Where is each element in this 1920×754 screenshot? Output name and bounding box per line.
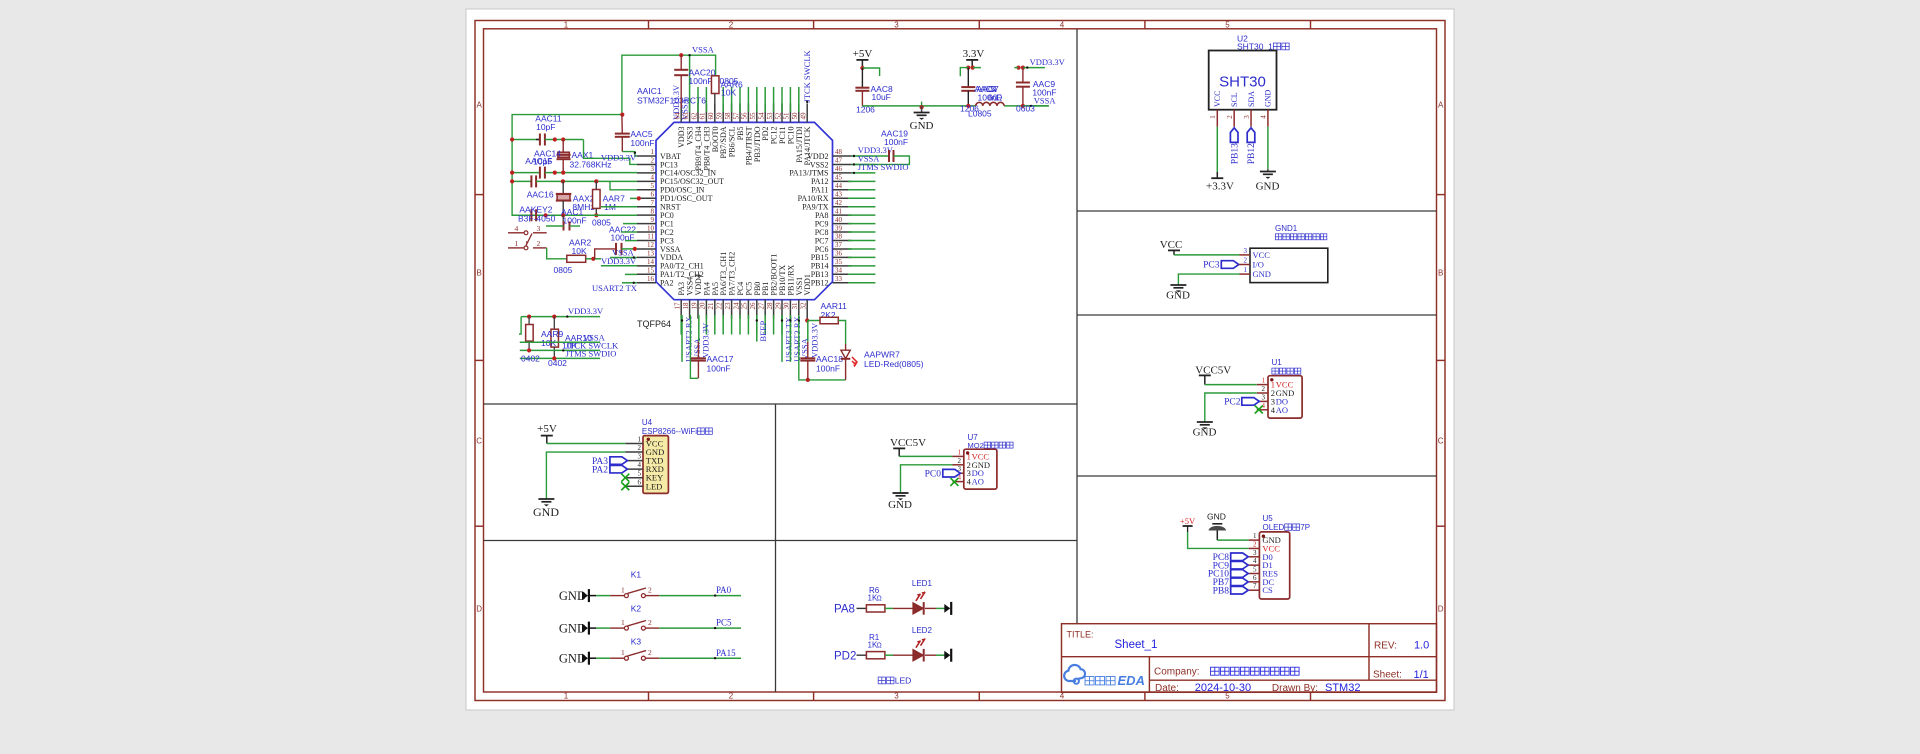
svg-text:7: 7 [651, 199, 655, 207]
svg-text:GND: GND [559, 621, 586, 635]
svg-text:36: 36 [835, 250, 843, 258]
svg-text:100nF: 100nF [630, 138, 654, 148]
svg-text:1: 1 [1253, 532, 1257, 540]
power +5V flag (U4) [537, 423, 625, 444]
svg-text:U4: U4 [642, 418, 653, 427]
wire pin48 VDD3.3V with capacitor AAC19 [852, 129, 910, 165]
svg-text:100nF: 100nF [884, 137, 908, 147]
wire SHT30 pin1 to +3.3V [1206, 127, 1234, 193]
svg-text:11: 11 [647, 233, 654, 241]
svg-text:8: 8 [651, 207, 655, 215]
svg-text:1: 1 [621, 618, 625, 627]
svg-text:Date:: Date: [1155, 683, 1179, 694]
svg-text:4: 4 [1260, 115, 1268, 119]
svg-text:15: 15 [647, 267, 655, 275]
ground GND (bus) [910, 102, 934, 132]
svg-text:VSSA: VSSA [692, 45, 715, 55]
svg-text:PA2: PA2 [660, 279, 674, 288]
svg-text:3: 3 [651, 165, 655, 173]
svg-text:2: 2 [1244, 257, 1248, 265]
svg-text:K2: K2 [631, 604, 642, 614]
svg-text:100nF: 100nF [563, 216, 587, 226]
crystal AAX2 8MHz [556, 181, 595, 215]
wire GND bus [862, 105, 1048, 107]
svg-text:GND: GND [1264, 89, 1273, 107]
svg-text:1: 1 [564, 692, 569, 701]
svg-text:48: 48 [835, 148, 843, 156]
svg-text:VDD3.3V: VDD3.3V [810, 322, 820, 358]
MCU pins left 1-16 [637, 148, 724, 287]
net label USART3 RX pin30 [789, 315, 802, 362]
net flag PB13 (SCL) [1230, 128, 1240, 165]
svg-text:PB12: PB12 [811, 279, 829, 288]
svg-text:LED: LED [646, 481, 663, 491]
wire pin46 JTMS SWDIO [852, 162, 909, 174]
svg-text:REV:: REV: [1374, 641, 1397, 652]
svg-text:GND1: GND1 [1275, 224, 1298, 233]
svg-text:40: 40 [835, 216, 843, 224]
wire VSSA row to pin8 [512, 213, 637, 217]
svg-text:0402: 0402 [548, 358, 567, 368]
resistor R1 1K [857, 633, 913, 659]
svg-text:3: 3 [537, 224, 541, 233]
svg-text:+5V: +5V [853, 48, 873, 60]
svg-text:45: 45 [835, 174, 843, 182]
svg-text:PA8: PA8 [834, 604, 855, 616]
svg-text:2: 2 [648, 586, 652, 595]
net label USART2 TX pin16 [592, 282, 637, 293]
key K3 [559, 637, 741, 666]
svg-text:PA0: PA0 [716, 585, 732, 595]
svg-text:12: 12 [647, 241, 655, 249]
MCU pins top 64-49 [674, 103, 813, 170]
svg-text:5: 5 [1253, 566, 1257, 574]
wire pin9-11 [621, 224, 637, 241]
svg-text:0805: 0805 [554, 265, 573, 275]
svg-text:1: 1 [564, 20, 569, 29]
svg-text:TQFP64: TQFP64 [637, 319, 671, 329]
svg-text:+3.3V: +3.3V [1206, 181, 1234, 193]
svg-text:GND: GND [910, 120, 934, 132]
svg-text:VSSA: VSSA [1034, 95, 1057, 105]
svg-text:1.0: 1.0 [1414, 640, 1429, 652]
svg-text:GND: GND [888, 499, 912, 511]
svg-text:38: 38 [835, 233, 843, 241]
svg-text:64: 64 [674, 112, 682, 120]
wire pin47 VSSA [852, 154, 881, 166]
power VCC5V flag (U7) [890, 437, 953, 456]
svg-text:LED2: LED2 [912, 626, 933, 635]
svg-text:B3F-4050: B3F-4050 [518, 214, 556, 224]
power +5V flag (U5 VCC) [1180, 516, 1249, 548]
key AAKEY2 B3F-4050 [508, 205, 556, 250]
svg-text:LED1: LED1 [912, 579, 933, 588]
svg-text:32: 32 [800, 302, 808, 310]
svg-text:3: 3 [894, 20, 899, 29]
resistor AAR10 10K [541, 317, 592, 359]
svg-text:13: 13 [647, 250, 655, 258]
svg-text:AAC16: AAC16 [527, 190, 554, 200]
net flag PC2 [1224, 398, 1259, 408]
svg-text:A: A [1438, 101, 1444, 110]
svg-text:AO: AO [1276, 405, 1288, 415]
net label BEEP pin26 [756, 315, 768, 342]
svg-text:56: 56 [741, 112, 749, 120]
net JTCK SWCLK row [520, 341, 619, 353]
svg-text:2: 2 [1262, 385, 1266, 393]
svg-text:55: 55 [749, 112, 757, 120]
svg-text:AAPWR7: AAPWR7 [864, 350, 900, 360]
net flag PC3 [1203, 261, 1239, 271]
svg-text:OLED: OLED [1263, 523, 1285, 532]
svg-text:100nF: 100nF [707, 364, 731, 374]
svg-text:5: 5 [1225, 20, 1230, 29]
capacitor AAC9 100nF [1014, 57, 1065, 114]
net VSSA row [520, 333, 606, 343]
frame border [475, 21, 1445, 701]
svg-text:27: 27 [758, 302, 766, 310]
svg-text:3: 3 [1262, 393, 1266, 401]
svg-text:52: 52 [774, 112, 782, 120]
wire pin15 [625, 273, 637, 275]
svg-text:6: 6 [638, 478, 642, 486]
svg-text:57: 57 [732, 112, 740, 120]
net JTMS SWDIO row [520, 349, 617, 368]
svg-text:1: 1 [638, 436, 642, 444]
svg-text:2: 2 [648, 648, 652, 657]
svg-text:L0805: L0805 [968, 109, 992, 119]
svg-text:10K: 10K [572, 246, 587, 256]
ground buzzer [1166, 274, 1239, 301]
svg-text:9: 9 [651, 216, 655, 224]
svg-text:2: 2 [1226, 115, 1234, 119]
net flag PA3 [592, 457, 627, 467]
svg-text:2: 2 [958, 457, 962, 465]
svg-text:7: 7 [1253, 582, 1257, 590]
svg-text:C: C [476, 437, 482, 446]
svg-text:20: 20 [699, 302, 707, 310]
svg-text:+5V: +5V [537, 423, 557, 435]
svg-text:GND: GND [559, 651, 586, 665]
U7 pins [953, 448, 991, 486]
title block texts [1067, 630, 1430, 695]
svg-text:CS: CS [1262, 585, 1273, 595]
svg-text:18: 18 [682, 302, 690, 310]
svg-text:ESP8266--WiFi: ESP8266--WiFi [642, 427, 697, 436]
net label USART3 TX pin29 [781, 315, 794, 362]
svg-text:1/1: 1/1 [1414, 669, 1429, 681]
wire pin6 [630, 196, 641, 200]
svg-text:AAIC1: AAIC1 [637, 86, 662, 96]
svg-text:0603: 0603 [1016, 104, 1035, 114]
svg-text:1: 1 [1244, 266, 1248, 274]
svg-text:61: 61 [699, 112, 707, 120]
svg-text:5: 5 [638, 470, 642, 478]
net port PD2 [834, 650, 856, 662]
svg-text:STM32: STM32 [1325, 682, 1360, 694]
svg-text:AAC18: AAC18 [816, 354, 843, 364]
net label JTCK SWCLK (pin49) [802, 49, 812, 103]
wire AAC5 to pin1 VDD3.3V [601, 115, 655, 163]
svg-text:4: 4 [1253, 557, 1257, 565]
net label VDD3.3V pin14 [601, 256, 637, 266]
svg-text:19: 19 [690, 302, 698, 310]
svg-text:3: 3 [1243, 115, 1251, 119]
svg-text:21: 21 [707, 302, 715, 310]
svg-text:VDD3.3V: VDD3.3V [1030, 57, 1066, 67]
svg-text:22: 22 [716, 302, 724, 310]
resistor AAR11 2K2 [808, 301, 847, 344]
svg-text:LED-Red(0805): LED-Red(0805) [864, 359, 924, 369]
net flag PA2 [592, 465, 627, 475]
svg-text:62: 62 [690, 112, 698, 120]
svg-text:BEEP: BEEP [758, 321, 768, 342]
wire pin5 [610, 181, 637, 189]
wire pin31 VSSA rail bottom [798, 315, 846, 382]
svg-text:51: 51 [783, 112, 791, 120]
svg-text:U1: U1 [1272, 358, 1283, 367]
U5 pins [1249, 532, 1281, 595]
svg-text:1: 1 [651, 148, 655, 156]
wire pin7 NRST [601, 206, 637, 208]
wire stubs bottom pins [681, 315, 790, 335]
svg-text:VDD3.3V: VDD3.3V [701, 322, 711, 358]
svg-text:JTMS SWDIO: JTMS SWDIO [858, 162, 909, 172]
svg-text:TITLE:: TITLE: [1067, 630, 1094, 640]
module U5 OLED [1259, 514, 1310, 599]
svg-text:Ω: Ω [877, 642, 882, 649]
svg-text:26: 26 [749, 302, 757, 310]
svg-text:1: 1 [1262, 377, 1266, 385]
svg-text:GND: GND [559, 589, 586, 603]
svg-text:31: 31 [791, 302, 799, 310]
svg-text:39: 39 [835, 224, 843, 232]
svg-text:63: 63 [682, 112, 690, 120]
label onboard LED [878, 677, 885, 684]
svg-text:GND: GND [1253, 269, 1271, 279]
buzzer pins [1240, 247, 1271, 279]
svg-text:41: 41 [835, 207, 843, 215]
U1 pins [1257, 377, 1294, 415]
ground U5 pin1 [1207, 512, 1249, 541]
svg-text:SHT30: SHT30 [1219, 74, 1266, 91]
U4 pins [625, 436, 664, 492]
ground U1 [1193, 393, 1257, 439]
svg-text:54: 54 [758, 112, 766, 120]
net VSSA top rail [622, 45, 716, 115]
svg-text:VDD1: VDD1 [803, 274, 812, 295]
key K2 [559, 604, 741, 636]
resistor AAR6 10K [711, 76, 743, 112]
svg-text:37: 37 [835, 241, 843, 249]
resistor AAR2 10K [547, 238, 601, 276]
module GND1 buzzer [1250, 224, 1328, 283]
key K1 [559, 570, 741, 603]
svg-text:1: 1 [621, 648, 625, 657]
wire stubs top pins [690, 55, 799, 112]
svg-text:1: 1 [1209, 115, 1217, 119]
net VDD3.3V row (SWD block) [519, 306, 604, 334]
svg-text:SDA: SDA [1247, 91, 1256, 107]
svg-text:10K: 10K [721, 88, 736, 98]
ground port (LED1) [944, 602, 951, 615]
net flag PB12 (SDA) [1247, 128, 1257, 165]
svg-text:VCC: VCC [1253, 250, 1271, 260]
svg-text:B: B [1438, 269, 1443, 278]
svg-text:GND: GND [1256, 181, 1280, 193]
net port PA8 [834, 604, 855, 616]
capacitor AAC8 10uF [855, 68, 893, 115]
wire pin18 VSSA [690, 315, 702, 378]
svg-text:7P: 7P [1300, 523, 1310, 532]
svg-text:VCC: VCC [1213, 91, 1222, 107]
svg-text:30: 30 [783, 302, 791, 310]
svg-text:GND: GND [533, 505, 559, 519]
svg-text:LED: LED [895, 676, 912, 686]
svg-text:PC0: PC0 [925, 469, 942, 479]
svg-text:PD2: PD2 [834, 650, 856, 662]
svg-text:44: 44 [835, 182, 843, 190]
svg-text:3: 3 [894, 692, 899, 701]
svg-text:PA15: PA15 [716, 648, 736, 658]
svg-text:28: 28 [766, 302, 774, 310]
MCU pins bottom 17-32 [674, 252, 813, 319]
ground U7 [888, 465, 952, 511]
no-connect U4 LED [621, 482, 629, 490]
svg-text:Sheet:: Sheet: [1373, 670, 1402, 681]
wire crystal cluster frame [512, 113, 624, 216]
resistor AAR7 1M [592, 181, 625, 227]
svg-text:6: 6 [1253, 574, 1257, 582]
svg-text:50: 50 [791, 112, 799, 120]
svg-text:VCC: VCC [1160, 239, 1183, 251]
svg-text:Drawn By:: Drawn By: [1272, 683, 1318, 694]
svg-text:PC2: PC2 [1224, 398, 1241, 408]
svg-text:2: 2 [651, 157, 655, 165]
svg-text:JTCK SWCLK: JTCK SWCLK [802, 49, 812, 102]
svg-text:A: A [477, 101, 483, 110]
capacitor AAC11 10pF [510, 114, 584, 146]
svg-text:VCC5V: VCC5V [890, 437, 926, 449]
svg-text:2: 2 [1253, 540, 1257, 548]
svg-text:AO: AO [972, 477, 984, 487]
svg-text:4: 4 [515, 224, 519, 233]
module U4 ESP8266 WiFi [642, 418, 712, 493]
svg-text:5: 5 [651, 182, 655, 190]
svg-text:43: 43 [835, 190, 843, 198]
svg-text:PB8: PB8 [1213, 586, 1230, 596]
svg-text:10pF: 10pF [533, 157, 552, 167]
net flag PC0 [925, 469, 961, 479]
svg-text:AAC17: AAC17 [707, 354, 734, 364]
svg-text:SCL: SCL [1230, 92, 1239, 107]
module U2 SHT30 [1209, 34, 1289, 110]
svg-text:1: 1 [958, 448, 962, 456]
svg-text:4: 4 [1060, 20, 1065, 29]
op-amp U: MCU AAIC1 STM32F103RCT6 body [656, 122, 833, 299]
net label VSSA pin13 [610, 247, 637, 258]
svg-text:1: 1 [621, 586, 625, 595]
svg-text:42: 42 [835, 199, 843, 207]
svg-text:46: 46 [835, 165, 843, 173]
wire stubs right pins [848, 181, 875, 282]
capacitor AAC22 100nF (pin12) [593, 225, 637, 259]
capacitor AAC14 10pF [510, 149, 637, 179]
ground SHT30 pin4 [1256, 127, 1280, 193]
svg-text:49: 49 [800, 112, 808, 120]
no-connect U1 AO [1255, 406, 1263, 414]
svg-text:2: 2 [638, 444, 642, 452]
svg-text:K1: K1 [631, 570, 642, 580]
capacitor AAC1 100nF [546, 207, 587, 231]
ground U4 [533, 452, 625, 519]
svg-text:2: 2 [729, 20, 734, 29]
capacitor AAC16 [510, 175, 637, 199]
MCU pins right 48-33 [789, 148, 851, 287]
power 3.3V flag [960, 48, 984, 76]
svg-text:59: 59 [716, 112, 724, 120]
svg-text:14: 14 [647, 258, 655, 266]
svg-text:PA14/JTCK: PA14/JTCK [803, 126, 812, 165]
svg-text:35: 35 [835, 258, 843, 266]
svg-text:JTMS SWDIO: JTMS SWDIO [566, 349, 617, 359]
svg-text:U5: U5 [1263, 514, 1274, 523]
svg-text:VDD3.3V: VDD3.3V [601, 153, 637, 163]
svg-text:3.3V: 3.3V [963, 48, 985, 60]
inductor L5 60R [968, 84, 1004, 119]
svg-text:4: 4 [638, 461, 642, 469]
svg-text:PB12: PB12 [1247, 143, 1257, 164]
sheet [466, 9, 1454, 710]
svg-text:100nF: 100nF [816, 364, 840, 374]
svg-text:4: 4 [651, 174, 655, 182]
svg-text:60: 60 [707, 112, 715, 120]
svg-text:3: 3 [638, 453, 642, 461]
svg-text:2: 2 [648, 618, 652, 627]
svg-text:D: D [1438, 605, 1444, 614]
svg-text:10uF: 10uF [872, 92, 891, 102]
svg-text:34: 34 [835, 267, 843, 275]
logo JLC EDA [1064, 665, 1145, 688]
capacitor AAC17 100nF [691, 315, 734, 378]
svg-text:K3: K3 [631, 637, 642, 647]
svg-text:24: 24 [732, 302, 740, 310]
svg-text:2024-10-30: 2024-10-30 [1195, 682, 1251, 694]
module U1 flame detection [1268, 358, 1302, 418]
svg-text:Ω: Ω [996, 93, 1002, 103]
svg-text:58: 58 [724, 112, 732, 120]
resistor R6 1K [857, 586, 913, 612]
svg-text:I/O: I/O [1253, 260, 1264, 270]
svg-text:17: 17 [674, 302, 682, 310]
svg-text:10pF: 10pF [536, 122, 555, 132]
svg-text:D: D [476, 605, 482, 614]
svg-text:C: C [1438, 437, 1444, 446]
svg-text:10K: 10K [541, 338, 556, 348]
crystal AAX1 32.768KHz [557, 140, 638, 173]
svg-text:16: 16 [647, 275, 655, 283]
svg-text:PC3: PC3 [1203, 261, 1220, 271]
svg-text:USART2 TX: USART2 TX [592, 283, 637, 293]
led AAPWR7 LED-Red(0805) [841, 344, 924, 380]
svg-text:EDA: EDA [1118, 673, 1145, 688]
no-connect U4 KEY [621, 474, 629, 482]
power VCC flag (buzzer) [1160, 239, 1240, 255]
resistor AAR9 10K [526, 317, 534, 351]
svg-text:VDD3.3V: VDD3.3V [601, 256, 637, 266]
svg-text:Ω: Ω [877, 596, 882, 603]
svg-text:GND: GND [1193, 427, 1217, 439]
